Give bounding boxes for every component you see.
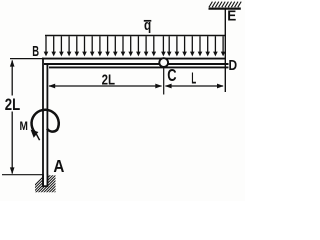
svg-text:B: B bbox=[32, 44, 39, 60]
load baseline / top chord line (also 2L dimension extension to the left) bbox=[10, 58, 44, 60]
moment M arrowhead bbox=[31, 130, 39, 138]
column bottom cap bbox=[42, 185, 48, 187]
moment M arc bbox=[32, 110, 59, 134]
svg-text:L: L bbox=[191, 71, 196, 88]
svg-text:A: A bbox=[53, 156, 64, 176]
ground line at A bbox=[2, 174, 44, 176]
column AB right line bbox=[46, 63, 48, 186]
fixed support hatching at E bbox=[209, 2, 241, 8]
svg-text:E: E bbox=[227, 7, 236, 24]
up arrowhead bbox=[10, 60, 15, 67]
svg-text:q: q bbox=[144, 17, 151, 34]
svg-text:C: C bbox=[167, 65, 177, 85]
hinge circle at C bbox=[159, 58, 168, 67]
left arrowhead bbox=[48, 84, 55, 89]
horizontal dimension line 2L (B to C) bbox=[49, 85, 162, 87]
beam BD top line bbox=[44, 63, 229, 65]
svg-text:2L: 2L bbox=[5, 95, 20, 114]
svg-text:D: D bbox=[229, 57, 238, 74]
svg-text:2L: 2L bbox=[102, 72, 115, 88]
distributed load arrows bbox=[44, 36, 226, 56]
vertical dimension line 2L (left) bbox=[11, 61, 13, 96]
hinge dimension extension line below C bbox=[163, 67, 165, 94]
right arrowhead bbox=[217, 84, 224, 89]
horizontal dimension line L (C to D) bbox=[166, 85, 224, 87]
fixed base hatch block at A bbox=[26, 174, 76, 194]
right arrowhead bbox=[155, 84, 162, 89]
down arrowhead bbox=[10, 167, 15, 174]
svg-text:M: M bbox=[20, 119, 28, 133]
column AB left line bbox=[42, 58, 44, 187]
beam BD bottom line bbox=[49, 66, 229, 68]
white slot where column enters base bbox=[44, 175, 47, 186]
column lines inside base bbox=[42, 174, 44, 186]
hanger rod E to D bbox=[224, 10, 226, 93]
distributed load top line bbox=[45, 35, 225, 37]
fixed support ceiling line at E bbox=[209, 8, 241, 10]
left arrowhead bbox=[165, 84, 172, 89]
